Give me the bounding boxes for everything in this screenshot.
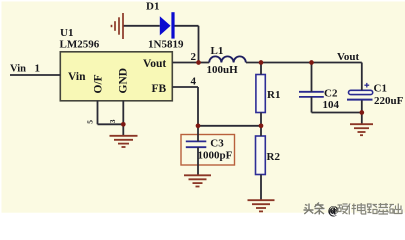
svg-text:LM2596: LM2596 [60,38,100,50]
junction node SW at pin2 [196,60,201,65]
wire Vout rail to R1 top [260,63,262,75]
wire C3 bottom to ground [197,147,199,175]
C2 designator label [324,88,338,100]
wire U1 Vout pin2 stub [172,62,198,64]
wire R2 bottom to ground [260,175,262,201]
svg-text:C1: C1 [374,82,387,94]
L1 value label 100uH [207,64,239,76]
junction node FB at divider [259,123,264,128]
junction node Vout at C2 [309,60,314,65]
svg-text:O/F: O/F [93,74,105,93]
U1 designator label [60,27,73,39]
highlight box around C3 [181,135,235,166]
capacitor C3 feed-forward [186,141,207,147]
pin number 4 [191,75,197,87]
wire C2 bottom down [311,97,313,113]
svg-text:U1: U1 [60,27,73,39]
wire FB node to C3 top [197,126,199,142]
svg-text:104: 104 [323,99,340,111]
wire C1 bottom to rail [361,100,363,112]
svg-text:100uH: 100uH [207,64,239,76]
resistor R1 [256,75,265,113]
wire switch node vertical to diode cathode [198,26,200,63]
svg-text:FB: FB [152,83,167,95]
wire U1 pin3 down to ground [122,101,124,136]
wire ground to diode anode [124,25,160,27]
svg-text:1: 1 [35,63,41,75]
diode D1 (1N5819 schottky) [160,12,175,38]
svg-text:4: 4 [191,75,197,87]
L1 designator label [211,45,224,57]
resistor R2 [256,136,266,175]
capacitor C2 [299,92,324,97]
IC U1 LM2596 regulator body [60,52,172,101]
svg-text:Vin: Vin [10,64,26,75]
wire FB node to R2 top [260,126,262,136]
svg-text:GND: GND [118,68,130,94]
ground (below R2) [248,200,275,211]
wire FB vertical [197,87,199,126]
node Vin input label [10,64,26,75]
svg-text:L1: L1 [211,45,224,57]
pin number 3 (rotated) [108,119,117,123]
svg-text:1N5819: 1N5819 [148,39,184,51]
wire U1 FB pin4 stub [172,86,198,88]
wire pin5 to pin3 junction [98,123,124,125]
ground (below C3) [184,175,211,186]
R2 designator label [267,151,281,163]
U1 pin name Vout [143,58,166,70]
capacitor C1 electrolytic [347,83,373,100]
svg-text:@: @ [328,204,338,216]
U1 value label LM2596 [60,38,100,50]
wire FB horizontal to divider [198,125,261,127]
junction node pin3 pin5 [121,122,126,127]
wire Vin input to U1 pin1 [10,74,60,76]
ground (below C1) [350,124,373,135]
wire diode cathode horizontal [175,25,199,27]
svg-text:C3: C3 [210,138,224,150]
wire switch node to L1 [199,62,210,64]
junction node C1 ground [359,110,364,115]
svg-text:220uF: 220uF [374,95,404,107]
svg-text:R2: R2 [267,151,281,163]
svg-text:D1: D1 [146,1,159,13]
svg-text:1000pF: 1000pF [198,149,233,161]
svg-text:Vout: Vout [143,58,166,70]
D1 value label 1N5819 [148,39,184,51]
C3 designator label [210,138,224,150]
U1 pin name GND (rotated) [118,68,130,94]
wire Vout rail to C2 top [311,63,313,92]
svg-text:5: 5 [86,120,95,124]
D1 designator label [146,1,159,13]
svg-text:Vout: Vout [337,51,360,63]
inductor L1 [209,56,246,62]
wire Vout rail to C1 top [361,63,363,91]
wire C1 node to ground [361,113,363,125]
svg-text:3: 3 [108,119,117,123]
wire U1 pin5 down [97,101,99,125]
pin number 2 [191,51,197,63]
junction node FB at C3 [196,123,201,128]
svg-text:R1: R1 [267,89,280,101]
U1 pin name FB [152,83,167,95]
R1 designator label [267,89,280,101]
C1 designator label [374,82,387,94]
wire L1 to Vout rail [246,62,362,64]
C2 value label 104 [323,99,340,111]
svg-text:C2: C2 [324,88,338,100]
C3 value label 1000pF [198,149,233,161]
pin number 5 (rotated) [86,120,95,124]
watermark 头条 @硬件电路基础 [304,203,403,217]
junction node Vout at R1 [259,60,264,65]
U1 pin name Vin [68,71,86,83]
svg-text:2: 2 [191,51,197,63]
ground (below U1 pins) [110,136,138,147]
pin number 1 [35,63,41,75]
wire R1 bottom to FB node [260,113,262,126]
wire bottom rail C2 to C1 [312,112,362,114]
svg-text:Vin: Vin [68,71,86,83]
ground (rotated, at D1 anode) [112,13,124,39]
node Vout label [337,51,360,63]
U1 pin name O/F (rotated) [93,74,105,93]
C1 value label 220uF [374,95,404,107]
